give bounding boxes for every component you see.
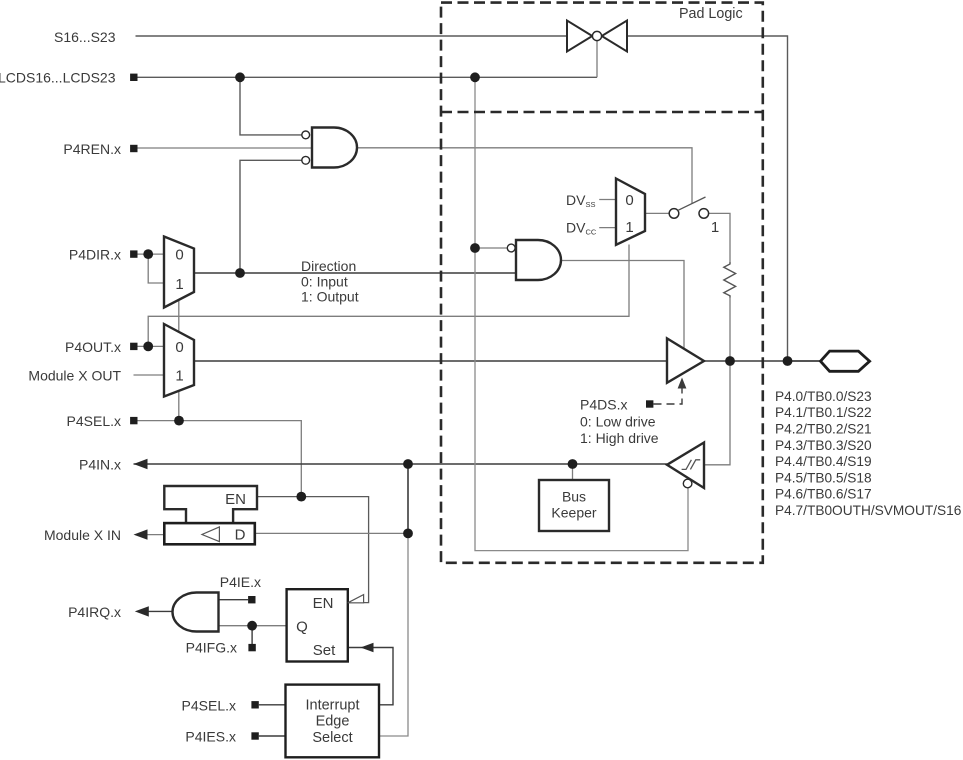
junction node pullup	[725, 356, 735, 366]
flag clock triangle	[348, 595, 364, 603]
junction node P4SEL	[174, 416, 184, 426]
svg-text:1: High drive: 1: High drive	[580, 430, 659, 446]
wire resistor to pad net	[729, 298, 731, 362]
svg-text:Select: Select	[312, 730, 352, 746]
NAND gate U1 body	[312, 128, 357, 168]
wire P4IN.x from Schmitt	[134, 463, 668, 465]
latch D box	[164, 523, 255, 544]
arrowhead P4IN	[134, 459, 148, 469]
switch SW1 lever	[678, 197, 706, 210]
wire S16...S23 to switch	[136, 35, 568, 37]
wire P4IFG.x stub	[251, 626, 253, 644]
NAND gate U2 body	[516, 240, 561, 280]
junction node LCDS tap2	[470, 72, 480, 82]
svg-text:P4REN.x: P4REN.x	[63, 141, 121, 157]
svg-text:Bus: Bus	[562, 489, 586, 505]
wire flag Q to gate	[219, 625, 287, 627]
svg-text:1: 1	[711, 219, 719, 236]
wire module X IN from latch	[147, 534, 164, 536]
wire pad net to Schmitt input	[704, 361, 730, 465]
junction node Direction	[235, 268, 245, 278]
svg-text:Module X OUT: Module X OUT	[28, 368, 121, 384]
junction node LCDS tap1	[235, 72, 245, 82]
svg-text:P4.5/TB0.5/S18: P4.5/TB0.5/S18	[775, 470, 872, 485]
junction node NAND U2 input	[470, 243, 480, 253]
analog switch S16 right triangle	[602, 21, 627, 52]
svg-text:P4SEL.x: P4SEL.x	[182, 698, 236, 714]
wire NAND U2 output to driver enable	[562, 261, 685, 350]
wire switch output to pad column	[627, 36, 788, 361]
terminal square P4IE	[248, 596, 255, 603]
svg-text:Pad Logic: Pad Logic	[679, 6, 743, 22]
svg-text:P4.7/TB0OUTH/SVMOUT/S16: P4.7/TB0OUTH/SVMOUT/S16	[775, 503, 962, 518]
svg-text:P4OUT.x: P4OUT.x	[65, 339, 121, 355]
wire P4IE.x stub	[219, 599, 249, 601]
wire LCDS enable column	[475, 77, 688, 550]
resistor R1	[724, 262, 736, 298]
analog switch S16 gate circle	[592, 31, 601, 40]
svg-text:0: 0	[625, 192, 633, 209]
junction node EN	[296, 492, 306, 502]
svg-text:P4.6/TB0.6/S17: P4.6/TB0.6/S17	[775, 487, 872, 502]
mux P4DIR	[164, 237, 194, 308]
junction node P4IFG	[247, 621, 257, 631]
svg-text:Q: Q	[296, 619, 308, 636]
wire latch D input	[255, 532, 408, 534]
wire driver output to pad	[704, 360, 821, 362]
svg-text:1: 1	[175, 368, 183, 385]
junction node P4DIR	[143, 249, 153, 259]
svg-text:1: 1	[625, 219, 633, 236]
wire DVss input	[599, 199, 616, 201]
arrowhead Set input	[361, 643, 374, 653]
wire switch to pullup resistor	[709, 213, 730, 262]
pad logic dashed box	[441, 3, 763, 563]
svg-text:Module X IN: Module X IN	[44, 527, 121, 543]
svg-text:P4.3/TB0.3/S20: P4.3/TB0.3/S20	[775, 438, 872, 453]
svg-text:1: Output: 1: Output	[301, 288, 359, 304]
latch D clock triangle	[202, 527, 219, 542]
switch SW1 contact circle right	[699, 209, 709, 219]
wire P4DIR.x branch to mux input 1	[148, 254, 164, 283]
wire NAND U2 top input	[475, 247, 507, 249]
svg-text:Set: Set	[313, 642, 336, 659]
mux P4OUT	[164, 324, 194, 397]
svg-text:P4.1/TB0.1/S22: P4.1/TB0.1/S22	[775, 405, 872, 420]
wire P4REN.x to NAND U1	[138, 147, 313, 149]
svg-text:P4IFG.x: P4IFG.x	[186, 640, 237, 656]
svg-text:P4IES.x: P4IES.x	[185, 729, 236, 745]
wire edge select to flag Set	[348, 648, 393, 705]
svg-text:Interrupt: Interrupt	[306, 697, 360, 713]
svg-text:D: D	[235, 527, 246, 544]
wire P4SEL.x stub bottom	[259, 704, 286, 706]
svg-text:LCDS16...LCDS23: LCDS16...LCDS23	[0, 70, 116, 86]
svg-text:P4DIR.x: P4DIR.x	[69, 247, 121, 263]
svg-text:P4IN.x: P4IN.x	[79, 457, 121, 473]
schmitt hysteresis glyph	[682, 460, 701, 470]
terminal square P4SEL bottom	[251, 701, 258, 708]
P4DS terminal square	[646, 400, 653, 407]
svg-text:P4IRQ.x: P4IRQ.x	[68, 604, 121, 620]
wire Module X OUT to mux input 1	[134, 374, 165, 376]
svg-text:P4DS.x: P4DS.x	[580, 397, 627, 413]
pin name list	[775, 389, 962, 518]
terminal square LCDS	[130, 74, 137, 81]
wire switch gate control	[596, 41, 598, 78]
P4DS dashed control	[654, 387, 683, 404]
schmitt trigger input buffer	[667, 443, 704, 489]
output driver buffer	[667, 338, 704, 382]
junction node D input	[403, 529, 413, 539]
junction node pad	[783, 356, 793, 366]
wire pad junction to hexagon	[788, 360, 821, 362]
wire LCDS16...LCDS23 bus	[138, 76, 598, 78]
wire DV mux output to switch	[645, 212, 669, 214]
svg-text:P4SEL.x: P4SEL.x	[67, 413, 121, 429]
svg-text:1: 1	[175, 276, 183, 293]
terminal square P4SEL	[130, 417, 137, 424]
svg-text:P4.4/TB0.4/S19: P4.4/TB0.4/S19	[775, 454, 872, 469]
terminal square P4REN	[130, 145, 137, 152]
NAND U2 input bubble	[507, 244, 515, 252]
terminal square P4IFG	[248, 644, 255, 651]
junction node buskeeper	[568, 459, 578, 469]
wire output mux to driver	[194, 360, 667, 362]
interrupt edge select box	[286, 685, 380, 758]
wire NAND U1 output to switch lever	[358, 148, 693, 204]
switch SW1 contact circle left	[669, 209, 679, 219]
NAND U1 input bubble top	[302, 131, 310, 139]
svg-text:P4IE.x: P4IE.x	[220, 574, 261, 590]
svg-text:0: Low drive: 0: Low drive	[580, 414, 656, 430]
svg-text:0: 0	[175, 247, 183, 264]
terminal square P4OUT	[130, 343, 137, 350]
latch EN box	[164, 486, 257, 523]
wire latch EN to flag clock	[257, 497, 369, 603]
analog switch S16 left triangle	[567, 21, 592, 52]
P4DS arrowhead	[678, 378, 687, 389]
svg-text:Edge: Edge	[316, 714, 350, 730]
schmitt enable bubble	[683, 479, 692, 488]
svg-text:EN: EN	[225, 491, 246, 508]
svg-text:Keeper: Keeper	[551, 505, 596, 521]
wire DVcc input	[599, 227, 616, 229]
arrowhead Module X IN	[134, 529, 148, 539]
svg-text:0: 0	[175, 339, 183, 356]
wire Direction net	[194, 272, 516, 274]
pad logic dashed divider	[441, 111, 763, 114]
wire P4OUT.x to mux input 0	[138, 345, 165, 347]
AND gate P4IRQ body	[173, 593, 219, 632]
interrupt flag box	[287, 589, 348, 661]
wire P4IES.x stub	[259, 735, 286, 737]
NAND U1 input bubble bottom	[302, 156, 310, 164]
wire NAND U1 bottom input to Direction net	[240, 160, 302, 273]
junction node P4IN-D	[403, 459, 413, 469]
svg-text:EN: EN	[313, 595, 334, 612]
junction node P4OUT	[143, 342, 153, 352]
wire shared select P4SEL through muxes	[178, 299, 180, 421]
svg-text:Direction: Direction	[301, 258, 356, 274]
wire bus keeper stub	[572, 464, 574, 480]
wire P4OUT.x branch to DV mux select	[148, 245, 629, 347]
mux DV pull select	[616, 179, 645, 245]
wire input branch to interrupt edge select	[379, 533, 408, 736]
svg-text:P4.2/TB0.2/S21: P4.2/TB0.2/S21	[775, 422, 872, 437]
pad hexagon	[821, 351, 870, 371]
bus keeper box	[539, 480, 609, 531]
terminal square P4IES	[251, 732, 258, 739]
wire P4SEL.x to EN node	[138, 421, 302, 497]
wire P4IRQ.x from gate	[148, 610, 173, 612]
svg-text:S16...S23: S16...S23	[54, 29, 116, 45]
arrowhead P4IRQ	[135, 606, 149, 616]
svg-text:P4.0/TB0.0/S23: P4.0/TB0.0/S23	[775, 389, 872, 404]
wire LCDS branch to NAND U1 top input	[240, 77, 302, 135]
svg-text:0: Input: 0: Input	[301, 274, 348, 290]
terminal square P4DIR	[130, 250, 137, 257]
wire P4DIR.x to mux input 0	[138, 253, 165, 255]
wire input branch to latch D	[407, 464, 409, 533]
